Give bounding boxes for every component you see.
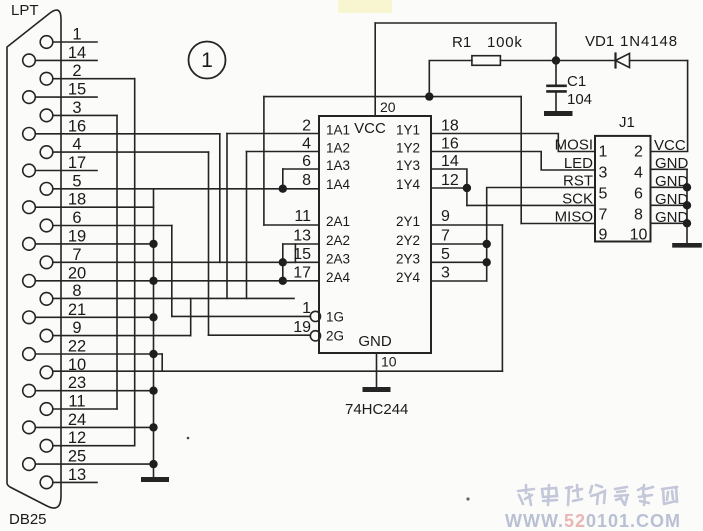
LPT pin 15 xyxy=(23,81,97,104)
svg-text:17: 17 xyxy=(293,265,311,282)
svg-text:25: 25 xyxy=(68,448,86,466)
ground bus vertical xyxy=(153,189,155,478)
wire R1 rail xyxy=(264,96,521,98)
svg-text:MOSI: MOSI xyxy=(555,137,593,154)
LPT pin 24 wire to ground bus xyxy=(23,411,154,434)
wire VCC down to J1 xyxy=(651,61,688,152)
wire 2A1 vertical from R1 rail xyxy=(263,97,265,225)
LPT pin 1 xyxy=(40,26,97,49)
svg-text:8: 8 xyxy=(72,282,81,300)
svg-text:9: 9 xyxy=(441,208,450,225)
LPT pin 12 wire xyxy=(40,429,135,452)
svg-text:1: 1 xyxy=(72,26,81,44)
wire 1A3 row with tie to pin5 row xyxy=(283,168,319,170)
junction dot 2Y2 tie xyxy=(483,240,491,248)
svg-text:15: 15 xyxy=(293,246,311,263)
svg-text:2Y2: 2Y2 xyxy=(396,233,420,248)
svg-text:2A1: 2A1 xyxy=(326,214,350,229)
ground symbol of bus xyxy=(144,477,167,482)
LPT pin 8 wire xyxy=(40,282,294,305)
svg-text:SCK: SCK xyxy=(562,191,593,208)
wire R1 left leg xyxy=(429,61,472,97)
svg-text:5: 5 xyxy=(599,186,608,203)
wire pin16 vertical to pin7 row xyxy=(219,134,221,262)
svg-text:2Y3: 2Y3 xyxy=(396,251,420,266)
wire 2G line xyxy=(209,334,311,336)
node dot VCC net xyxy=(552,56,560,64)
op IC U1 74HC244 body xyxy=(319,116,431,353)
junction dot 2A4 tie xyxy=(279,277,287,285)
ground symbol IC pin 10 xyxy=(365,387,388,392)
svg-text:19: 19 xyxy=(68,227,86,245)
wire 2Y1 row xyxy=(431,224,502,226)
wire MISO riser to R1 rail xyxy=(520,97,522,224)
svg-text:13: 13 xyxy=(68,466,86,484)
svg-text:7: 7 xyxy=(599,207,608,224)
connector J1 body xyxy=(595,136,651,242)
wire 2A2 row to 74HC244 xyxy=(283,243,319,245)
svg-text:1Y2: 1Y2 xyxy=(396,141,420,156)
junction dot 1A3 1A4 tie xyxy=(279,185,287,193)
svg-text:R1: R1 xyxy=(452,34,471,51)
svg-text:J1: J1 xyxy=(619,114,635,131)
wire MISO to J1 xyxy=(521,223,595,225)
junction dot 1Y3 1Y4 xyxy=(463,184,471,192)
ground symbol J1 xyxy=(675,243,700,248)
svg-text:18: 18 xyxy=(441,118,459,135)
74HC244 pin 20 VCC wire to top rail xyxy=(374,23,376,116)
svg-text:2A3: 2A3 xyxy=(326,251,350,266)
LPT pin 5 wire to 1A4 xyxy=(40,172,319,195)
svg-text:C1: C1 xyxy=(567,73,586,90)
wire pin22 jog down to pin10 line xyxy=(161,354,163,371)
LPT pin 3 xyxy=(40,99,117,122)
svg-text:16: 16 xyxy=(441,136,459,153)
wire J1 GND pin10 xyxy=(651,222,688,224)
ground symbol C1 xyxy=(547,111,571,116)
wire 2Y2 row xyxy=(431,243,487,245)
wire 1A2 vertical to pin8 row xyxy=(246,152,248,299)
svg-text:WWW.520101.COM: WWW.520101.COM xyxy=(505,511,681,531)
svg-text:20: 20 xyxy=(68,264,86,282)
74HC244 input labels xyxy=(326,123,421,344)
svg-text:5: 5 xyxy=(441,246,450,263)
svg-text:RST: RST xyxy=(563,173,593,190)
wire pin8 pin9 vertical xyxy=(190,298,192,335)
LPT pin 20 wire to ground bus and 2A4 xyxy=(23,264,283,287)
svg-text:10: 10 xyxy=(381,354,397,370)
svg-text:100k: 100k xyxy=(487,34,523,51)
svg-text:2: 2 xyxy=(634,144,643,161)
svg-text:4: 4 xyxy=(634,165,643,182)
svg-text:LED: LED xyxy=(564,155,593,172)
LPT pin 4 xyxy=(40,136,208,159)
LPT pin 13 xyxy=(40,466,97,489)
wire pin6 vertical to 1G line xyxy=(171,226,173,317)
wire J1 GND pin4 xyxy=(651,168,688,170)
svg-text:13: 13 xyxy=(293,228,311,245)
watermark site url xyxy=(505,511,681,531)
wire 1A2 row to 74HC244 xyxy=(247,151,320,153)
svg-text:18: 18 xyxy=(68,191,86,209)
74HC244 pin numbers left xyxy=(293,118,311,337)
svg-text:17: 17 xyxy=(68,154,86,172)
svg-text:2Y4: 2Y4 xyxy=(396,270,421,285)
wire R1 right leg xyxy=(500,60,556,62)
wire 2A4 row to 74HC244 xyxy=(283,280,319,282)
svg-text:1: 1 xyxy=(599,144,608,161)
wire 2Y3 row xyxy=(431,261,487,263)
svg-text:DB25: DB25 xyxy=(9,511,47,528)
wire 2Y4 row xyxy=(431,280,487,282)
svg-text:2A4: 2A4 xyxy=(326,270,351,285)
yellow scan highlight patch xyxy=(338,0,392,13)
wire pin3 vertical to pin11 xyxy=(116,115,118,409)
svg-text:8: 8 xyxy=(634,207,643,224)
wire 2A2 2A3 2A4 tie vertical xyxy=(282,244,284,281)
wire 1Y1 to MOSI xyxy=(431,134,595,152)
junction dot R1 left xyxy=(425,92,433,100)
wire pin4 vertical to 2G line xyxy=(208,152,210,335)
2G inverting bubble xyxy=(310,331,320,341)
svg-text:6: 6 xyxy=(634,186,643,203)
LPT pin 23 wire to ground bus xyxy=(23,374,154,397)
watermark site name glyphs xyxy=(518,485,677,505)
svg-text:14: 14 xyxy=(68,44,86,62)
junction dots J1 ground xyxy=(683,183,691,227)
LPT pin 25 wire to ground bus xyxy=(23,448,154,471)
svg-text:10: 10 xyxy=(630,227,648,244)
svg-text:6: 6 xyxy=(72,209,81,227)
LPT pin 11 wire xyxy=(40,393,117,416)
J1 pin numbers xyxy=(599,144,648,244)
svg-text:10: 10 xyxy=(68,356,86,374)
svg-text:23: 23 xyxy=(68,374,86,392)
svg-text:3: 3 xyxy=(72,99,81,117)
svg-text:3: 3 xyxy=(599,165,608,182)
diode VD1 1N4148 xyxy=(556,60,615,62)
wire 1Y4 xyxy=(431,187,467,189)
svg-text:2Y1: 2Y1 xyxy=(396,214,420,229)
svg-text:74HC244: 74HC244 xyxy=(345,401,408,418)
J1 ground bus vertical xyxy=(686,169,688,244)
svg-text:2G: 2G xyxy=(326,329,344,344)
top rail wire xyxy=(375,22,556,24)
svg-text:24: 24 xyxy=(68,411,86,429)
LPT pin 7 wire to 2A3 2A2 xyxy=(40,246,295,269)
svg-text:11: 11 xyxy=(294,208,311,225)
svg-text:VCC: VCC xyxy=(354,120,386,137)
wire 2A1 row to 74HC244 xyxy=(264,224,319,226)
svg-text:2A2: 2A2 xyxy=(326,233,350,248)
svg-text:7: 7 xyxy=(441,228,450,245)
resistor R1 100k xyxy=(472,56,501,66)
wire RST to J1 xyxy=(487,188,595,282)
LPT pin 16 xyxy=(23,117,220,140)
LPT pin 9 wire xyxy=(40,319,191,342)
74HC244 pin 10 GND wire xyxy=(376,353,378,387)
figure number circle 1 xyxy=(189,42,226,79)
junction dots on ground bus xyxy=(149,240,157,469)
stray speck 1 xyxy=(187,437,190,440)
svg-text:1N4148: 1N4148 xyxy=(620,33,678,50)
svg-text:3: 3 xyxy=(441,265,450,282)
svg-text:VD1: VD1 xyxy=(585,33,614,50)
svg-text:16: 16 xyxy=(68,117,86,135)
svg-text:1A4: 1A4 xyxy=(326,177,351,192)
LPT pin 19 wire to ground bus xyxy=(23,227,154,250)
svg-text:1Y3: 1Y3 xyxy=(396,158,420,173)
stray speck 2 xyxy=(466,497,469,500)
LPT pin 22 wire to ground bus xyxy=(23,338,163,361)
wire pin2 vertical to pin12 xyxy=(134,79,136,446)
svg-text:6: 6 xyxy=(302,153,311,170)
svg-text:22: 22 xyxy=(68,338,86,356)
wire J1 GND pin6 xyxy=(651,186,688,188)
svg-text:21: 21 xyxy=(68,301,86,319)
svg-text:2: 2 xyxy=(302,118,311,135)
svg-text:GND: GND xyxy=(358,333,392,350)
svg-text:9: 9 xyxy=(599,227,608,244)
svg-text:1: 1 xyxy=(302,300,311,317)
1G inverting bubble xyxy=(310,311,320,321)
junction dot 2A3 tie xyxy=(279,258,287,266)
junction dot 2Y3 tie xyxy=(483,258,491,266)
svg-text:1G: 1G xyxy=(326,310,344,325)
svg-text:20: 20 xyxy=(380,99,396,115)
svg-text:MISO: MISO xyxy=(555,209,593,226)
svg-text:4: 4 xyxy=(302,136,311,153)
wire 2Y1 down to pin10 line xyxy=(501,225,503,371)
svg-text:VCC: VCC xyxy=(654,137,686,154)
svg-text:15: 15 xyxy=(68,81,86,99)
74HC244 pin numbers right xyxy=(441,118,459,282)
svg-text:1Y4: 1Y4 xyxy=(396,177,421,192)
wire pin7 riser to 2A2 row xyxy=(294,244,296,262)
wire 1A1 row to 74HC244 xyxy=(227,133,319,135)
svg-text:11: 11 xyxy=(68,393,85,411)
svg-text:14: 14 xyxy=(441,153,459,170)
wire 1Y3 xyxy=(431,169,467,205)
svg-text:1A1: 1A1 xyxy=(326,123,350,138)
svg-text:4: 4 xyxy=(72,136,81,154)
svg-text:12: 12 xyxy=(68,429,86,447)
svg-text:19: 19 xyxy=(293,319,311,336)
connector J-LPT DB25 outline xyxy=(7,10,61,508)
LPT pin 10 long wire to 2Y1 xyxy=(40,356,502,379)
LPT pin 17 xyxy=(23,154,97,177)
svg-text:1A3: 1A3 xyxy=(326,158,350,173)
wire 1A1 vertical to pin8 row xyxy=(226,134,228,299)
svg-text:8: 8 xyxy=(302,172,311,189)
LPT pin 18 wire to ground bus xyxy=(23,191,154,214)
svg-text:9: 9 xyxy=(72,319,81,337)
LPT pin 14 xyxy=(23,44,97,67)
svg-text:12: 12 xyxy=(441,172,459,189)
LPT pin 21 wire to ground bus xyxy=(23,301,154,324)
wire 1G line xyxy=(172,315,310,317)
capacitor C1 104 xyxy=(555,61,557,85)
svg-text:104: 104 xyxy=(567,91,592,108)
svg-text:7: 7 xyxy=(72,246,81,264)
LPT pin 2 xyxy=(40,62,135,85)
LPT pin 6 wire to 1G xyxy=(40,209,172,232)
svg-text:5: 5 xyxy=(72,172,81,190)
wire 2A3 row to 74HC244 xyxy=(283,261,319,263)
svg-text:1Y1: 1Y1 xyxy=(396,123,420,138)
svg-text:LPT: LPT xyxy=(11,2,39,19)
svg-text:1A2: 1A2 xyxy=(326,141,350,156)
wire SCK to J1 xyxy=(467,204,595,206)
svg-text:1: 1 xyxy=(201,49,213,72)
wire 1Y2 to LED xyxy=(431,152,595,171)
svg-text:2: 2 xyxy=(72,62,81,80)
wire J1 GND pin8 xyxy=(651,204,688,206)
